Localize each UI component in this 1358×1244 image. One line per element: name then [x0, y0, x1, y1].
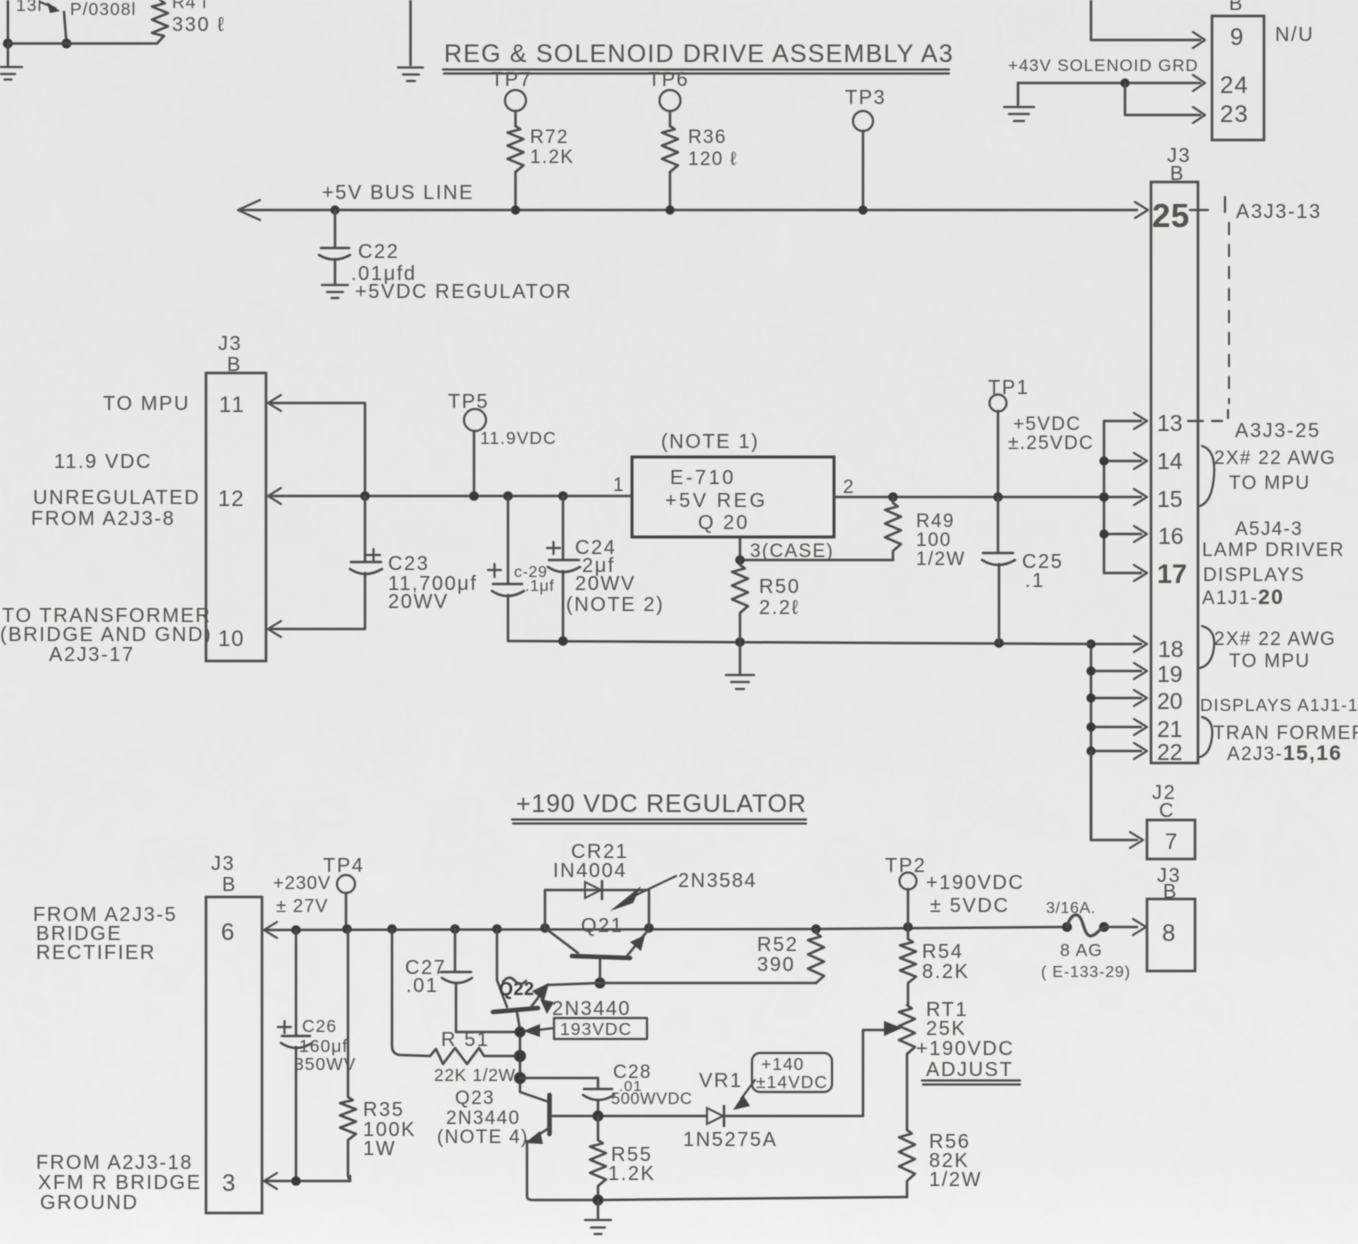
svg-text:A5J4-3: A5J4-3	[1235, 519, 1303, 540]
svg-text:16: 16	[1158, 523, 1184, 549]
svg-text:6: 6	[221, 919, 234, 946]
wire	[514, 172, 517, 210]
svg-text:(NOTE 4): (NOTE 4)	[437, 1127, 529, 1148]
svg-text:11: 11	[219, 392, 246, 417]
connector B box	[1212, 0, 1264, 140]
svg-text:Q 20: Q 20	[698, 512, 749, 534]
svg-text:RECTIFIER: RECTIFIER	[36, 942, 156, 964]
svg-text:C23: C23	[388, 553, 430, 575]
capacitor C26	[278, 930, 312, 1181]
svg-text:TP6: TP6	[648, 69, 689, 91]
node junctions rail	[291, 925, 301, 935]
pin numbers 13-22	[1157, 410, 1187, 765]
svg-text:20WV: 20WV	[388, 591, 449, 613]
node junction pin3	[291, 1176, 301, 1186]
svg-text:R35: R35	[363, 1099, 405, 1121]
svg-text:2X# 22 AWG: 2X# 22 AWG	[1214, 629, 1336, 650]
node junction R55 bottom	[593, 1195, 604, 1206]
svg-text:100: 100	[916, 530, 952, 551]
svg-text:23: 23	[1220, 101, 1249, 128]
svg-text:25: 25	[1152, 197, 1190, 234]
svg-text:GROUND: GROUND	[40, 1192, 139, 1214]
wire	[7, 0, 10, 44]
svg-text:J3: J3	[211, 853, 235, 875]
svg-text:R36: R36	[688, 127, 727, 148]
wire into pin 9	[1091, 0, 1205, 48]
wire Q21 base line	[547, 983, 816, 985]
svg-text:+43V SOLENOID GRD: +43V SOLENOID GRD	[1008, 56, 1199, 75]
svg-text:22: 22	[1157, 739, 1183, 765]
svg-text:A2J3-17: A2J3-17	[49, 644, 135, 666]
capacitor C24	[547, 496, 580, 641]
arrow into pin 8	[1133, 919, 1146, 935]
transistor Q22	[493, 929, 549, 1102]
svg-text:P/0308l: P/0308l	[70, 0, 136, 19]
svg-text:+190VDC: +190VDC	[926, 872, 1024, 894]
svg-text:TO MPU: TO MPU	[1229, 651, 1310, 672]
svg-text:2.2ℓ: 2.2ℓ	[759, 597, 800, 619]
svg-text:DISPLAYS: DISPLAYS	[1203, 565, 1305, 586]
svg-text:193VDC: 193VDC	[560, 1019, 632, 1039]
svg-text:+5V REG: +5V REG	[665, 490, 768, 512]
wire bottom rail	[508, 641, 1091, 644]
label 193VDC boxed	[523, 1018, 647, 1039]
svg-text:B: B	[1229, 0, 1244, 15]
wire case	[740, 537, 893, 560]
wire	[8, 42, 156, 45]
resistor R49	[885, 497, 901, 560]
svg-text:B: B	[222, 874, 237, 896]
svg-text:R 51: R 51	[441, 1029, 490, 1051]
wire arrow to switch	[40, 2, 67, 44]
node junction	[360, 491, 370, 501]
svg-text:Q23: Q23	[455, 1088, 495, 1109]
wire bus pins 13-17	[1104, 413, 1147, 581]
svg-text:120 ℓ: 120 ℓ	[688, 149, 738, 170]
svg-text:2N3440: 2N3440	[552, 998, 631, 1020]
svg-text:.1μf: .1μf	[525, 578, 554, 595]
node junction	[1120, 78, 1129, 87]
svg-text:500WVDC: 500WVDC	[611, 1090, 692, 1108]
svg-text:2N3584: 2N3584	[678, 870, 757, 892]
node junction rail to pins	[1099, 492, 1109, 502]
svg-text:1: 1	[613, 475, 625, 496]
node junctions	[1099, 456, 1108, 465]
node junction R49 top	[888, 492, 898, 502]
svg-text:R52: R52	[757, 934, 799, 956]
svg-text:8: 8	[1162, 920, 1175, 947]
svg-text:FROM A2J3-8: FROM A2J3-8	[31, 508, 175, 530]
svg-text:±.25VDC: ±.25VDC	[1008, 433, 1094, 454]
ground	[1004, 83, 1034, 121]
svg-text:R50: R50	[759, 576, 801, 598]
svg-text:2N3440: 2N3440	[446, 1108, 520, 1129]
svg-text:160μf: 160μf	[299, 1036, 348, 1056]
wire +5V bus line with left arrow	[238, 200, 1137, 220]
svg-text:8.2K: 8.2K	[922, 961, 970, 983]
potentiometer RT1	[899, 1005, 915, 1130]
capacitor C27	[441, 929, 520, 1032]
wire pin 6 rail	[264, 922, 1067, 938]
node junctions bottom rail	[558, 636, 568, 646]
svg-text:1N5275A: 1N5275A	[683, 1129, 778, 1151]
connector box (6/3)	[206, 897, 262, 1213]
capacitor C22	[319, 210, 350, 284]
svg-text:IN4004: IN4004	[553, 860, 627, 882]
svg-text:+5VDC REGULATOR: +5VDC REGULATOR	[355, 281, 572, 303]
transistor Q23	[525, 1095, 598, 1200]
svg-text:7: 7	[1165, 829, 1177, 854]
wire pin 11	[268, 395, 365, 496]
svg-text:VR1: VR1	[699, 1070, 743, 1092]
svg-text:.01: .01	[406, 975, 439, 997]
wire into pin 24	[1018, 75, 1205, 91]
node junction Q21 base	[595, 978, 606, 989]
node junction TP1	[993, 492, 1003, 502]
test point TP6	[648, 69, 689, 126]
node junction TP5	[469, 491, 479, 501]
fuse 3/16A	[1062, 915, 1137, 936]
resistor R52	[808, 929, 824, 983]
svg-text:8 AG: 8 AG	[1060, 940, 1103, 960]
svg-text:R54: R54	[922, 941, 964, 963]
svg-text:C26: C26	[302, 1016, 337, 1036]
svg-text:XFM R BRIDGE: XFM R BRIDGE	[38, 1172, 202, 1194]
svg-text:± 5VDC: ± 5VDC	[930, 895, 1009, 917]
svg-text:A2J3-15,16: A2J3-15,16	[1227, 742, 1342, 765]
svg-text:R4 l: R4 l	[172, 0, 207, 12]
transistor Q21	[545, 915, 649, 983]
test point TP3	[845, 87, 886, 210]
svg-text:+5VDC: +5VDC	[1013, 414, 1081, 435]
svg-text:1.2K: 1.2K	[530, 147, 574, 168]
resistor R54	[900, 927, 916, 1005]
wire bus pins 18-22	[1091, 636, 1147, 840]
svg-text:.1: .1	[1025, 570, 1045, 592]
svg-text:3: 3	[222, 1170, 235, 1197]
wire output rail	[834, 496, 1104, 499]
svg-text:+5V BUS LINE: +5V BUS LINE	[322, 182, 474, 204]
svg-text:24: 24	[1220, 72, 1249, 99]
svg-text:1/2W: 1/2W	[929, 1169, 982, 1191]
arrow into pin 25	[1135, 202, 1148, 218]
title REG & SOLENOID DRIVE ASSEMBLY A3	[443, 40, 954, 74]
test point TP2	[885, 855, 926, 927]
resistor R36	[662, 126, 678, 172]
label 2N3440 with arrow	[540, 998, 631, 1020]
wire pin 12 rail	[268, 488, 632, 504]
svg-text:2X# 22 AWG: 2X# 22 AWG	[1214, 448, 1336, 469]
leader +140 box	[733, 1053, 832, 1110]
svg-text:±14VDC: ±14VDC	[756, 1072, 828, 1092]
svg-text:20WV: 20WV	[575, 573, 636, 595]
svg-text:11.9 VDC: 11.9 VDC	[54, 451, 152, 473]
title +190VDC REGULATOR	[512, 790, 807, 824]
svg-text:A3J3-25: A3J3-25	[1235, 420, 1321, 442]
capacitor C28	[583, 1089, 614, 1116]
svg-text:DISPLAYS A1J1-11,: DISPLAYS A1J1-11,	[1200, 695, 1358, 715]
svg-text:25K: 25K	[926, 1018, 966, 1040]
svg-text:(NOTE 2): (NOTE 2)	[566, 594, 664, 616]
wire pin 10	[268, 576, 365, 637]
label 2N3584 with leader	[610, 870, 757, 911]
svg-text:18: 18	[1158, 636, 1184, 662]
wire bus into pin 7	[1091, 751, 1143, 848]
svg-text:2: 2	[843, 477, 855, 498]
svg-text:ADJUST: ADJUST	[926, 1059, 1013, 1081]
svg-text:12: 12	[218, 486, 244, 511]
node junction C28 bottom	[593, 1111, 604, 1122]
diode CR21 loop	[545, 881, 649, 928]
svg-text:10: 10	[218, 626, 244, 651]
bracket 21-22	[1200, 717, 1212, 757]
ground	[398, 0, 423, 81]
svg-text:A3J3-13: A3J3-13	[1236, 201, 1322, 223]
wire pin 3 rail	[264, 1173, 350, 1189]
test point TP1	[988, 377, 1029, 497]
connector box	[206, 373, 266, 661]
capacitor C25	[982, 497, 1015, 643]
resistor R35	[340, 929, 356, 1181]
node junction	[62, 39, 72, 49]
svg-text:9: 9	[1230, 24, 1243, 51]
dashed link A3J3-13	[1188, 197, 1229, 421]
svg-text:11.9VDC: 11.9VDC	[480, 428, 557, 448]
capacitor C-29	[488, 496, 524, 641]
node junctions	[1086, 639, 1095, 648]
svg-text:N/U: N/U	[1275, 24, 1314, 46]
svg-text:TP4: TP4	[323, 855, 364, 877]
svg-text:+190 VDC REGULATOR: +190 VDC REGULATOR	[516, 790, 807, 818]
svg-text:UNREGULATED: UNREGULATED	[33, 487, 200, 509]
svg-text:FROM A2J3-18: FROM A2J3-18	[36, 1152, 193, 1174]
svg-text:(NOTE 1): (NOTE 1)	[661, 431, 759, 453]
svg-text:LAMP DRIVER: LAMP DRIVER	[1202, 540, 1345, 561]
ground	[0, 44, 22, 80]
svg-text:20: 20	[1157, 688, 1183, 714]
svg-text:390: 390	[757, 954, 795, 976]
ground below R50	[726, 642, 754, 689]
test point TP7	[491, 69, 532, 126]
regulator U E-710 box	[632, 457, 834, 537]
svg-text:TRAN FORMER: TRAN FORMER	[1213, 723, 1358, 744]
svg-text:REG & SOLENOID DRIVE ASSEMBLY: REG & SOLENOID DRIVE ASSEMBLY A3	[444, 40, 954, 68]
svg-text:R72: R72	[530, 127, 569, 148]
svg-text:R49: R49	[916, 511, 955, 532]
svg-text:J3: J3	[218, 333, 242, 355]
svg-text:22K 1/2W: 22K 1/2W	[434, 1065, 516, 1085]
resistor R56	[899, 1130, 915, 1197]
node junction C-29	[503, 491, 513, 501]
svg-text:19: 19	[1157, 661, 1183, 687]
svg-text:1W: 1W	[363, 1138, 396, 1160]
svg-text:15: 15	[1157, 486, 1183, 512]
svg-text:3/16A.: 3/16A.	[1046, 900, 1096, 917]
node junctions Q22 base line	[515, 1027, 526, 1038]
svg-text:(BRIDGE AND GND): (BRIDGE AND GND)	[0, 624, 212, 646]
test point TP5	[448, 391, 489, 496]
svg-text:13: 13	[1157, 410, 1183, 436]
svg-text:Q21: Q21	[581, 915, 624, 937]
svg-text:C22: C22	[358, 241, 400, 263]
wire	[669, 172, 672, 210]
svg-text:( E-133-29): ( E-133-29)	[1041, 964, 1131, 981]
svg-text:+140: +140	[761, 1054, 804, 1074]
svg-text:17: 17	[1157, 559, 1187, 589]
svg-text:TO MPU: TO MPU	[1229, 473, 1310, 494]
resistor R41	[152, 0, 168, 44]
svg-text:TP7: TP7	[491, 69, 532, 91]
svg-text:E-710: E-710	[670, 467, 736, 489]
svg-text:TO MPU: TO MPU	[103, 393, 190, 415]
node junctions on bus	[330, 205, 339, 214]
resistor R55	[590, 1116, 606, 1200]
wire bottom ground rail	[598, 1197, 907, 1200]
connector J3 B pin 8	[1147, 865, 1195, 971]
svg-text:1.2K: 1.2K	[608, 1163, 656, 1185]
bracket 18-19	[1200, 626, 1214, 668]
svg-text:330 ℓ: 330 ℓ	[172, 14, 225, 36]
resistor R51	[392, 929, 520, 1064]
node junction case	[735, 555, 745, 565]
test point TP4	[323, 855, 364, 928]
ground below R55	[585, 1200, 611, 1234]
node junction C24	[558, 491, 568, 501]
capacitor C23	[350, 496, 382, 576]
wire C28 top link	[520, 1078, 598, 1087]
connector J2 C pin 7	[1147, 782, 1195, 859]
svg-text:14: 14	[1157, 448, 1183, 474]
wire into pin 23	[1125, 83, 1205, 123]
svg-text:+190VDC: +190VDC	[916, 1038, 1014, 1060]
ground	[322, 285, 348, 298]
svg-text:± 27V: ± 27V	[276, 895, 328, 916]
resistor R50	[732, 560, 748, 642]
svg-text:13l: 13l	[16, 0, 42, 15]
svg-text:1/2W: 1/2W	[916, 549, 966, 570]
resistor R72	[508, 126, 524, 172]
wire base line to VR1	[598, 1115, 706, 1118]
diode VR1	[707, 1021, 902, 1126]
connector J3 B box	[1151, 182, 1198, 763]
svg-text:A1J1-20: A1J1-20	[1202, 586, 1284, 609]
node junction left	[3, 39, 13, 49]
bracket 14-15	[1200, 446, 1214, 506]
svg-text:TP5: TP5	[448, 391, 489, 413]
svg-text:TP3: TP3	[845, 87, 886, 109]
